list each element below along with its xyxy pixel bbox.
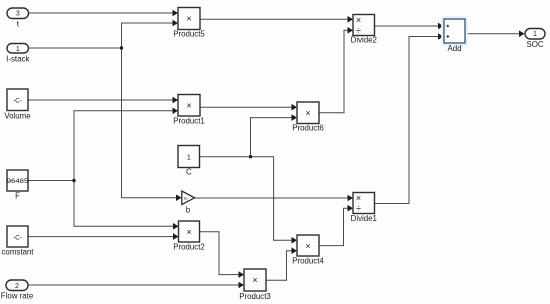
wire i-stack to junction — [29, 47, 122, 49]
arrowhead Product4 in1 — [292, 237, 298, 244]
arrowhead Add in1 — [438, 23, 444, 30]
divide block Divide2 — [351, 15, 377, 45]
svg-text:×: × — [305, 108, 310, 118]
wire Product5 to Divide2 in1 — [200, 18, 348, 20]
wire comstant to Product2 in2 — [28, 236, 173, 238]
svg-text:÷: ÷ — [356, 26, 361, 36]
svg-text:×: × — [356, 15, 361, 25]
svg-text:×: × — [186, 14, 191, 24]
wire t to Product5 in1 — [29, 12, 173, 14]
product block Product6 — [292, 102, 324, 133]
wire Volume to Product1 in1 — [28, 99, 173, 101]
wire junction3 up to Product6 in2 — [251, 118, 292, 157]
svg-text:b: b — [186, 206, 191, 215]
product block Product5 — [173, 8, 205, 39]
wire F to junction2 — [28, 180, 74, 182]
wire Product3 to Product4 in2 — [266, 251, 292, 281]
svg-text:Divide2: Divide2 — [351, 36, 377, 45]
svg-text:Flow rate: Flow rate — [1, 292, 34, 301]
svg-text:×: × — [186, 227, 191, 237]
wire Product2 to Product3 in1 — [200, 232, 239, 275]
svg-text:Product4: Product4 — [292, 257, 324, 266]
svg-text:-C-: -C- — [13, 234, 22, 241]
arrowhead gain b input — [176, 194, 182, 201]
arrowhead Product3 in2 — [239, 282, 245, 289]
arrowhead Product1 in1 — [173, 97, 179, 104]
wire Product4 to Divide1 in2 — [319, 208, 348, 245]
svg-text:×: × — [305, 241, 310, 251]
arrowhead Product6 in2 — [292, 114, 298, 121]
svg-text:-C-: -C- — [13, 97, 22, 104]
constant F 96485 — [7, 170, 29, 201]
product block Product2 — [173, 221, 205, 252]
svg-text:I-stack: I-stack — [6, 55, 29, 64]
junction dot F — [72, 179, 75, 182]
wire Divide2 to Add in1 — [375, 25, 438, 27]
arrowhead Product6 in1 — [292, 104, 298, 111]
arrowhead Add in2 — [438, 33, 444, 40]
svg-text:Product2: Product2 — [173, 243, 205, 252]
sum block Add (selected) — [442, 17, 467, 53]
divide block Divide1 — [351, 193, 377, 224]
svg-text:t: t — [17, 20, 20, 29]
svg-text:96485: 96485 — [7, 178, 29, 185]
product block Product1 — [173, 95, 205, 126]
svg-text:×: × — [356, 193, 361, 203]
output port SOC — [525, 29, 545, 50]
svg-text:F: F — [15, 192, 20, 201]
svg-text:×: × — [186, 101, 191, 111]
arrowhead Product3 in1 — [239, 271, 245, 278]
svg-text:comstant: comstant — [1, 248, 34, 257]
svg-text:C: C — [186, 168, 192, 177]
wire Product6 to Divide2 in2 — [319, 30, 348, 113]
input port Flow rate — [1, 280, 34, 301]
arrowhead Divide1 in2 — [348, 205, 354, 212]
svg-text:K-: K- — [184, 196, 189, 201]
wire C to Product4 in1 — [200, 157, 292, 241]
svg-text:1: 1 — [187, 155, 191, 162]
svg-text:Product5: Product5 — [173, 30, 205, 39]
input port t — [7, 8, 29, 29]
wire junction up to Product5 in2 — [122, 23, 173, 48]
arrowhead Product5 in2 — [173, 20, 179, 27]
wire Flow rate to Product3 in2 — [28, 284, 239, 286]
svg-text:÷: ÷ — [356, 204, 361, 214]
constant comstant — [1, 226, 34, 257]
arrowhead Product1 in2 — [173, 108, 179, 115]
constant C — [178, 146, 200, 177]
svg-text:Add: Add — [447, 44, 461, 53]
constant Volume — [4, 89, 31, 121]
junction dot i-stack — [120, 46, 123, 49]
product block Product3 — [239, 269, 271, 301]
gain b — [182, 191, 195, 215]
wire junction down to gain b — [122, 48, 177, 198]
svg-text:Product1: Product1 — [173, 117, 205, 126]
junction dot C wire — [249, 155, 252, 158]
arrowhead Divide1 in1 — [348, 195, 354, 202]
wire gain b to Divide1 in1 — [195, 197, 348, 199]
arrowhead Divide2 in1 — [348, 16, 354, 23]
arrowhead Product2 in2 — [173, 233, 179, 240]
arrowhead SOC input — [519, 30, 525, 37]
arrowhead Product5 in1 — [173, 10, 179, 17]
product block Product4 — [292, 235, 324, 266]
svg-text:Divide1: Divide1 — [351, 214, 377, 223]
input port i-stack — [6, 44, 29, 64]
wire Product1 to Product6 in1 — [200, 106, 292, 108]
svg-text:×: × — [252, 275, 257, 285]
svg-text:1: 1 — [533, 31, 537, 38]
svg-text:3: 3 — [16, 11, 20, 18]
svg-text:SOC: SOC — [526, 40, 543, 49]
arrowhead Product2 in1 — [173, 223, 179, 230]
wire Add to SOC — [465, 33, 519, 35]
wire Divide1 to Add in2 — [375, 37, 438, 204]
svg-text:Volume: Volume — [4, 112, 31, 121]
wire junction2 down to Product2 in1 — [74, 181, 173, 227]
arrowhead Product4 in2 — [292, 247, 298, 254]
svg-text:Product3: Product3 — [239, 292, 271, 301]
svg-text:1: 1 — [16, 46, 20, 53]
wire junction2 up to Product1 in2 — [74, 111, 173, 181]
svg-text:Product6: Product6 — [292, 124, 324, 133]
arrowhead Divide2 in2 — [348, 27, 354, 34]
svg-text:2: 2 — [15, 283, 19, 290]
